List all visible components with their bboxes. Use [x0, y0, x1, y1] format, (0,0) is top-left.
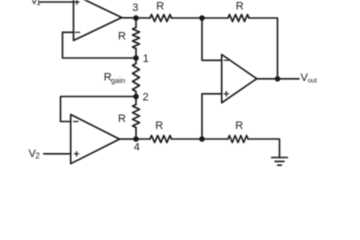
svg-text:R: R — [155, 120, 163, 132]
svg-text:out: out — [308, 78, 317, 85]
svg-text:gain: gain — [111, 76, 125, 85]
svg-text:R: R — [156, 0, 164, 12]
junction top — [200, 16, 204, 20]
wire U2 feedback from node 2 — [61, 97, 137, 122]
svg-text:4: 4 — [134, 142, 140, 154]
wire U1 feedback from node 1 — [63, 32, 137, 58]
node 3 — [134, 16, 138, 20]
node 2 — [134, 95, 138, 99]
junction bottom — [200, 137, 204, 141]
svg-text:R: R — [118, 113, 126, 125]
resistor R (top rail, node 3 to junction) — [150, 15, 172, 22]
op-amp U3 — [222, 55, 257, 103]
wire ground R to ground — [248, 139, 280, 158]
svg-text:2: 2 — [35, 152, 40, 161]
svg-text:R: R — [118, 31, 126, 43]
wire V2 to U2 + input — [44, 153, 71, 155]
wire top rail middle — [172, 17, 229, 19]
wire feedback R to output node — [249, 18, 278, 79]
op-amp U1 — [74, 0, 122, 41]
svg-text:2: 2 — [143, 92, 149, 104]
label V1 — [31, 0, 42, 7]
svg-text:1: 1 — [36, 0, 41, 7]
label Rgain — [104, 72, 125, 85]
node 4 — [134, 137, 138, 141]
ground — [272, 158, 288, 166]
wire junction to U3 inverting input — [202, 18, 222, 60]
svg-text:R: R — [235, 120, 243, 132]
wire U2 output to node 4 — [120, 138, 151, 140]
wire bottom rail middle — [172, 138, 229, 140]
label Vout — [301, 72, 317, 85]
node 1 — [134, 56, 138, 60]
wire junction to U3 non-inverting input — [202, 94, 222, 139]
resistor Rgain (node 1 to node 2) — [133, 58, 140, 97]
wire U3 output to Vout — [257, 78, 299, 80]
resistor R (top rail, feedback) — [228, 15, 249, 22]
svg-text:1: 1 — [143, 53, 149, 65]
resistor R (node 3 to node 1) — [133, 18, 140, 58]
op-amp U2 — [71, 115, 120, 164]
output node — [276, 77, 280, 81]
svg-text:R: R — [236, 1, 244, 13]
resistor R (bottom rail, to ground) — [228, 136, 248, 143]
label V2 — [29, 148, 41, 161]
svg-text:3: 3 — [132, 2, 138, 14]
resistor R (bottom rail, node 4 to junction) — [150, 136, 172, 143]
wire U1 output to node 3 — [122, 17, 150, 19]
wire V1 to U1 + input — [40, 1, 74, 3]
resistor R (node 2 to node 4) — [133, 97, 140, 140]
